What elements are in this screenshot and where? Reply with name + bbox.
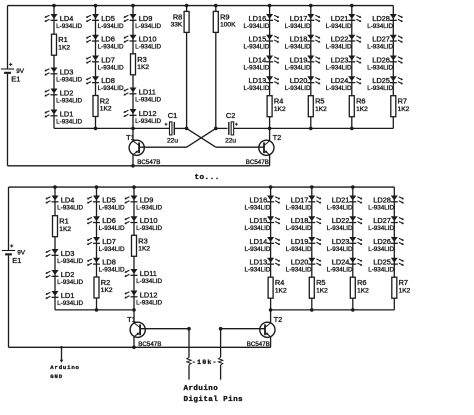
svg-text:L-934LID: L-934LID	[243, 44, 269, 51]
LED LD3	[44, 67, 82, 83]
svg-text:L-934LID: L-934LID	[367, 64, 393, 71]
wire column 1 (bottom)	[54, 187, 56, 310]
label Arduino GND (bottom)	[50, 364, 79, 380]
svg-text:LD18: LD18	[291, 216, 309, 225]
wire emitter ground rail	[8, 165, 270, 167]
svg-text:R4: R4	[274, 97, 283, 106]
resistor R5 1K2 (bottom)	[309, 277, 328, 298]
resistor 10k left squiggle (bottom)	[187, 357, 191, 365]
wire T2 emitter (bottom)	[270, 337, 272, 348]
wire battery positive lead	[7, 6, 9, 69]
LED LD22 (bottom)	[327, 216, 363, 232]
wire C1 right to node A	[175, 127, 187, 129]
LED LD19 (bottom)	[286, 237, 322, 253]
LED LD26 (bottom)	[368, 237, 404, 253]
svg-text:L-934LID: L-934LID	[367, 23, 393, 30]
svg-text:1K2: 1K2	[316, 287, 328, 294]
wire battery negative lead (bottom)	[8, 256, 10, 348]
LED LD2 (bottom)	[45, 270, 83, 286]
node T2 base pull junction (bottom)	[219, 327, 223, 331]
LED LD20 (bottom)	[286, 258, 322, 274]
svg-text:LD22: LD22	[332, 216, 350, 225]
svg-text:L-934LID: L-934LID	[327, 246, 353, 253]
resistor R4 1K2 (bottom)	[268, 277, 287, 298]
svg-text:L-934LID: L-934LID	[57, 300, 83, 307]
resistor R6 1K2	[349, 96, 368, 117]
svg-text:to...: to...	[195, 174, 220, 182]
node column R6 bottom (bottom)	[351, 308, 355, 312]
wire left pin lead lower (bottom)	[188, 365, 190, 380]
resistor 10k right squiggle (bottom)	[218, 357, 222, 365]
svg-text:LD21: LD21	[331, 14, 349, 23]
wire column R4	[269, 6, 271, 129]
svg-text:Digital Pins: Digital Pins	[184, 396, 244, 404]
LED LD2	[44, 88, 82, 104]
node column 2 top (bottom)	[95, 185, 99, 189]
wire T2 emitter	[269, 155, 271, 166]
transistor T1 BC547B (bottom)	[127, 315, 161, 348]
svg-text:LD6: LD6	[101, 35, 115, 44]
svg-text:LD22: LD22	[331, 35, 349, 44]
LED LD15 (bottom)	[244, 216, 280, 232]
LED LD17	[285, 14, 321, 30]
LED LD25 (bottom)	[368, 258, 404, 274]
wire +9V top rail (bottom)	[9, 186, 395, 188]
wire T1 emitter	[132, 155, 134, 166]
svg-text:L-934LID: L-934LID	[98, 44, 124, 51]
wire left collector rail	[54, 127, 169, 129]
LED LD22	[326, 35, 362, 51]
LED LD26	[367, 55, 403, 71]
svg-text:1K2: 1K2	[315, 106, 327, 113]
svg-text:L-934LID: L-934LID	[136, 299, 162, 306]
wire battery negative lead	[7, 74, 9, 166]
wire R8 bottom	[186, 32, 188, 128]
svg-text:1K2: 1K2	[138, 246, 150, 253]
svg-text:LD17: LD17	[290, 14, 308, 23]
svg-text:LD17: LD17	[291, 195, 309, 204]
svg-text:LD9: LD9	[139, 14, 153, 23]
svg-text:1K2: 1K2	[58, 44, 70, 51]
svg-text:L-934LID: L-934LID	[57, 258, 83, 265]
svg-text:T2: T2	[273, 133, 282, 142]
LED LD4 (bottom)	[45, 195, 83, 211]
wire column 2	[95, 6, 97, 129]
svg-text:L-934LID: L-934LID	[286, 225, 312, 232]
svg-text:-10k-: -10k-	[192, 359, 218, 366]
arrow Arduino GND (bottom)	[60, 360, 64, 363]
svg-text:LD8: LD8	[102, 258, 116, 267]
wire cross couple A to T2 base	[187, 128, 264, 147]
svg-text:L-934LID: L-934LID	[327, 267, 353, 274]
svg-text:100K: 100K	[220, 22, 236, 29]
svg-text:R7: R7	[398, 97, 407, 106]
svg-text:LD26: LD26	[373, 237, 391, 246]
node R8 top	[185, 4, 189, 8]
svg-text:LD18: LD18	[290, 35, 308, 44]
svg-text:LD2: LD2	[61, 270, 75, 279]
wire T2 base to pull node (bottom)	[221, 328, 265, 330]
svg-text:LD10: LD10	[139, 35, 157, 44]
svg-text:1K2: 1K2	[399, 287, 411, 294]
node column R5 bottom (bottom)	[310, 308, 314, 312]
node column R6 bottom	[350, 127, 354, 131]
svg-text:LD14: LD14	[250, 237, 268, 246]
svg-text:L-934LID: L-934LID	[367, 85, 393, 92]
node column 2 top	[94, 4, 98, 8]
node T1 collector junction	[131, 127, 135, 131]
svg-text:LD11: LD11	[139, 87, 156, 96]
node column 3 top (bottom)	[132, 185, 136, 189]
svg-text:L-934LID: L-934LID	[286, 267, 312, 274]
transistor T2 BC547B (bottom)	[247, 315, 282, 348]
svg-text:LD25: LD25	[372, 76, 390, 85]
svg-text:LD26: LD26	[372, 55, 390, 64]
svg-text:L-934LID: L-934LID	[327, 225, 353, 232]
resistor R3 1K2 (bottom)	[132, 235, 151, 256]
svg-text:LD25: LD25	[373, 258, 391, 267]
LED LD27	[367, 35, 403, 51]
svg-text:LD5: LD5	[102, 195, 116, 204]
wire T2 collector (bottom)	[270, 310, 272, 323]
svg-text:L-934LID: L-934LID	[135, 23, 161, 30]
wire column 1	[53, 6, 55, 129]
svg-text:LD14: LD14	[249, 55, 267, 64]
svg-text:LD11: LD11	[140, 269, 157, 278]
svg-text:LD19: LD19	[290, 55, 308, 64]
node T1 emitter junction (bottom)	[132, 346, 136, 350]
svg-text:L-934LID: L-934LID	[286, 246, 312, 253]
svg-text:LD4: LD4	[60, 14, 74, 23]
svg-text:L-934LID: L-934LID	[327, 204, 353, 211]
LED LD11 (bottom)	[124, 269, 162, 285]
svg-text:L-934LID: L-934LID	[368, 267, 394, 274]
svg-text:L-934LID: L-934LID	[244, 246, 270, 253]
svg-text:R2: R2	[101, 278, 110, 287]
svg-text:1K2: 1K2	[275, 287, 287, 294]
LED LD27 (bottom)	[368, 216, 404, 232]
svg-text:LD13: LD13	[249, 76, 267, 85]
LED LD1 (bottom)	[45, 291, 83, 307]
svg-text:22u: 22u	[167, 138, 178, 145]
svg-text:L-934LID: L-934LID	[99, 225, 125, 232]
resistor R4 1K2	[267, 96, 286, 117]
node T1 base pull junction (bottom)	[187, 327, 191, 331]
LED LD13	[243, 76, 279, 92]
svg-text:L-934LID: L-934LID	[57, 204, 83, 211]
svg-text:T2: T2	[274, 315, 283, 324]
LED LD20	[285, 76, 321, 92]
wire battery positive lead (bottom)	[8, 187, 10, 250]
svg-text:E1: E1	[12, 256, 21, 265]
resistor R6 1K2 (bottom)	[350, 277, 369, 298]
LED LD16	[243, 14, 279, 30]
svg-text:LD10: LD10	[140, 216, 158, 225]
node T2 collector junction	[268, 127, 272, 131]
LED LD6	[86, 35, 124, 51]
capacitor C1 22u	[165, 111, 179, 145]
LED LD24	[326, 76, 362, 92]
LED LD23	[326, 55, 362, 71]
node column 2 bottom (bottom)	[95, 308, 99, 312]
LED LD9	[123, 14, 161, 30]
node T1 emitter junction	[131, 164, 135, 168]
svg-text:1K2: 1K2	[101, 287, 113, 294]
svg-text:L-934LID: L-934LID	[326, 23, 352, 30]
wire T2 collector	[269, 128, 271, 141]
node column R6 top	[350, 4, 354, 8]
wire left pin lead upper (bottom)	[188, 329, 190, 358]
svg-text:L-934LID: L-934LID	[99, 204, 125, 211]
svg-text:L-934LID: L-934LID	[368, 225, 394, 232]
LED LD8 (bottom)	[87, 258, 125, 274]
svg-text:L-934LID: L-934LID	[56, 118, 82, 125]
svg-text:1K2: 1K2	[59, 226, 71, 233]
wire column R6	[351, 6, 353, 129]
svg-text:R7: R7	[399, 278, 408, 287]
label to...	[195, 174, 220, 182]
LED LD14	[243, 55, 279, 71]
node column R5 top	[309, 4, 313, 8]
wire C2 right to T2 collector	[234, 127, 270, 129]
wire T1 emitter (bottom)	[133, 337, 135, 348]
svg-text:L-934LID: L-934LID	[135, 44, 161, 51]
resistor R2 1K2	[93, 96, 112, 117]
svg-text:LD27: LD27	[372, 35, 390, 44]
wire column 3 (bottom)	[133, 187, 135, 310]
LED LD17 (bottom)	[286, 195, 322, 211]
svg-text:L-934LID: L-934LID	[136, 204, 162, 211]
wire right collector rail	[270, 127, 394, 129]
svg-text:L-934LID: L-934LID	[136, 225, 162, 232]
wire column R7	[392, 6, 394, 129]
wire R9 bottom	[215, 32, 217, 128]
LED LD25	[367, 76, 403, 92]
wire cross couple B to T1 base	[139, 128, 216, 147]
svg-text:L-934LID: L-934LID	[57, 279, 83, 286]
svg-text:33K: 33K	[171, 22, 183, 29]
svg-text:LD12: LD12	[140, 290, 158, 299]
svg-text:L-934LID: L-934LID	[326, 85, 352, 92]
node column R6 top (bottom)	[351, 185, 355, 189]
node R9 top	[214, 4, 218, 8]
node column 2 bottom	[94, 127, 98, 131]
wire column 3	[132, 6, 134, 129]
svg-text:BC547B: BC547B	[246, 159, 269, 166]
svg-text:LD1: LD1	[61, 291, 75, 300]
LED LD10 (bottom)	[124, 216, 162, 232]
resistor R7 1K2	[391, 96, 410, 117]
wire column R5	[310, 6, 312, 129]
LED LD23 (bottom)	[327, 237, 363, 253]
wire column R7 (bottom)	[393, 187, 395, 310]
svg-text:L-934LID: L-934LID	[244, 225, 270, 232]
LED LD10	[123, 35, 161, 51]
LED LD28	[367, 14, 403, 30]
svg-text:1K2: 1K2	[137, 64, 149, 71]
wire T1 collector	[132, 128, 134, 141]
svg-text:L-934LID: L-934LID	[286, 204, 312, 211]
LED LD12	[123, 109, 161, 125]
node column R4 top (bottom)	[269, 185, 273, 189]
capacitor C2 22u	[225, 111, 238, 145]
transistor T2 BC547B	[246, 133, 281, 166]
svg-text:L-934LID: L-934LID	[56, 97, 82, 104]
wire column R6 (bottom)	[352, 187, 354, 310]
svg-text:L-934LID: L-934LID	[285, 23, 311, 30]
resistor R5 1K2	[308, 96, 327, 117]
resistor R8 33K	[171, 11, 190, 32]
svg-text:LD24: LD24	[332, 258, 350, 267]
svg-text:L-934LID: L-934LID	[326, 64, 352, 71]
label Arduino Digital Pins (bottom)	[184, 385, 244, 404]
LED LD8	[86, 76, 124, 92]
svg-text:R4: R4	[275, 278, 284, 287]
svg-text:LD24: LD24	[331, 76, 349, 85]
svg-text:L-934LID: L-934LID	[243, 23, 269, 30]
svg-text:R8: R8	[173, 12, 182, 21]
wire T1 collector (bottom)	[133, 310, 135, 323]
wire node B to C2	[216, 127, 228, 129]
svg-text:LD6: LD6	[102, 216, 116, 225]
svg-text:L-934LID: L-934LID	[99, 267, 125, 274]
wire Arduino GND tap (bottom)	[61, 347, 63, 360]
wire right pin lead upper (bottom)	[220, 329, 222, 358]
svg-text:L-934LID: L-934LID	[285, 44, 311, 51]
svg-text:BC547B: BC547B	[137, 159, 160, 166]
svg-text:22u: 22u	[225, 138, 236, 145]
resistor R9 100K	[213, 11, 236, 32]
wire R8 top	[186, 6, 188, 12]
svg-text:L-934LID: L-934LID	[98, 85, 124, 92]
svg-text:L-934LID: L-934LID	[368, 204, 394, 211]
svg-text:LD19: LD19	[291, 237, 309, 246]
LED LD5	[86, 14, 124, 30]
LED LD19	[285, 55, 321, 71]
wire column R5 (bottom)	[311, 187, 313, 310]
svg-text:R6: R6	[356, 97, 365, 106]
wire column R4 (bottom)	[270, 187, 272, 310]
svg-text:T1: T1	[126, 133, 135, 142]
LED LD21 (bottom)	[327, 195, 363, 211]
node column 1 top (bottom)	[53, 185, 57, 189]
svg-text:R9: R9	[220, 12, 229, 21]
svg-text:LD23: LD23	[331, 55, 349, 64]
battery E1 9V	[1, 63, 25, 84]
svg-text:L-934LID: L-934LID	[98, 23, 124, 30]
svg-text:LD16: LD16	[249, 14, 267, 23]
node T1 collector junction (bottom)	[132, 308, 136, 312]
svg-text:LD3: LD3	[60, 67, 74, 76]
svg-text:LD28: LD28	[373, 195, 391, 204]
svg-text:E1: E1	[11, 75, 20, 84]
svg-text:LD5: LD5	[101, 14, 115, 23]
svg-text:LD20: LD20	[291, 258, 309, 267]
svg-text:R2: R2	[100, 97, 109, 106]
battery E1 9V (bottom)	[2, 244, 26, 265]
node column R5 top (bottom)	[310, 185, 314, 189]
wire left collector rail (bottom)	[55, 309, 134, 311]
svg-text:LD7: LD7	[102, 237, 116, 246]
wire right pin lead lower (bottom)	[220, 365, 222, 380]
svg-text:LD13: LD13	[250, 258, 268, 267]
wire +9V top rail	[8, 5, 394, 7]
LED LD24 (bottom)	[327, 258, 363, 274]
LED LD9 (bottom)	[124, 195, 162, 211]
LED LD28 (bottom)	[368, 195, 404, 211]
LED LD12 (bottom)	[124, 290, 162, 306]
svg-text:L-934LID: L-934LID	[136, 278, 162, 285]
svg-text:C2: C2	[226, 111, 235, 120]
svg-text:L-934LID: L-934LID	[326, 44, 352, 51]
svg-text:LD4: LD4	[61, 195, 75, 204]
label -10k- (bottom)	[192, 359, 218, 366]
svg-text:LD20: LD20	[290, 76, 308, 85]
svg-text:L-934LID: L-934LID	[98, 64, 124, 71]
svg-text:R3: R3	[137, 55, 146, 64]
svg-text:L-934LID: L-934LID	[135, 118, 161, 125]
node column 1 top	[52, 4, 56, 8]
LED LD4	[44, 14, 82, 30]
svg-text:R3: R3	[138, 236, 147, 245]
svg-text:L-934LID: L-934LID	[243, 85, 269, 92]
LED LD7	[86, 55, 124, 71]
svg-text:LD3: LD3	[61, 249, 75, 258]
LED LD16 (bottom)	[244, 195, 280, 211]
svg-text:L-934LID: L-934LID	[243, 64, 269, 71]
LED LD7 (bottom)	[87, 237, 125, 253]
node A R8/C1 junction	[185, 127, 189, 131]
svg-text:T1: T1	[127, 315, 136, 324]
svg-text:R1: R1	[58, 35, 67, 44]
node Arduino GND tap junction (bottom)	[60, 346, 63, 349]
svg-text:1K2: 1K2	[274, 106, 286, 113]
svg-text:R5: R5	[316, 278, 325, 287]
svg-text:R1: R1	[59, 217, 68, 226]
resistor R3 1K2	[131, 54, 150, 75]
node column R4 top	[268, 4, 272, 8]
wire column 2 (bottom)	[96, 187, 98, 310]
LED LD5 (bottom)	[87, 195, 125, 211]
LED LD18	[285, 35, 321, 51]
LED LD14 (bottom)	[244, 237, 280, 253]
svg-text:LD1: LD1	[60, 109, 74, 118]
resistor R1 1K2 (bottom)	[53, 216, 72, 237]
svg-text:GND: GND	[50, 373, 63, 380]
svg-text:1K2: 1K2	[100, 106, 112, 113]
svg-text:L-934LID: L-934LID	[56, 76, 82, 83]
svg-text:Arduino: Arduino	[184, 385, 219, 393]
wire R9 top	[215, 6, 217, 12]
LED LD15	[243, 35, 279, 51]
LED LD6 (bottom)	[87, 216, 125, 232]
svg-text:C1: C1	[168, 111, 177, 120]
svg-text:1K2: 1K2	[398, 106, 410, 113]
svg-text:L-934LID: L-934LID	[367, 44, 393, 51]
svg-text:LD9: LD9	[140, 195, 154, 204]
svg-text:LD23: LD23	[332, 237, 350, 246]
svg-text:R6: R6	[357, 278, 366, 287]
svg-text:LD8: LD8	[101, 76, 115, 85]
svg-text:LD15: LD15	[249, 35, 267, 44]
svg-text:LD12: LD12	[139, 109, 157, 118]
svg-text:LD28: LD28	[372, 14, 390, 23]
wire T1 base to pull node (bottom)	[140, 328, 189, 330]
svg-text:1K2: 1K2	[356, 106, 368, 113]
transistor T1 BC547B	[126, 133, 160, 166]
node T2 collector junction (bottom)	[269, 308, 273, 312]
svg-text:L-934LID: L-934LID	[99, 246, 125, 253]
